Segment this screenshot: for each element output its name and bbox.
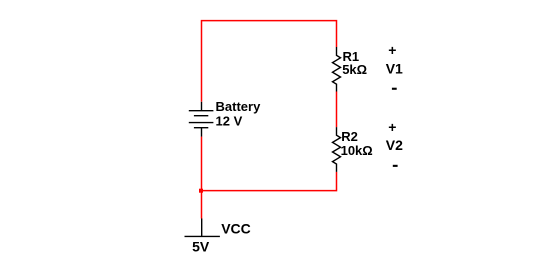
svg-text:12 V: 12 V bbox=[216, 113, 243, 128]
wire battery to VCC bbox=[201, 137, 203, 219]
wire top rail bbox=[202, 21, 337, 102]
wire R1-R2 bbox=[336, 92, 338, 128]
battery V3 bbox=[189, 102, 214, 137]
svg-text:VCC: VCC bbox=[221, 220, 251, 236]
junction bbox=[199, 189, 203, 193]
svg-text:+: + bbox=[388, 42, 396, 58]
svg-text:5kΩ: 5kΩ bbox=[342, 62, 367, 77]
svg-text:+: + bbox=[388, 119, 396, 135]
probe V2 minus bbox=[393, 165, 398, 167]
svg-text:V2: V2 bbox=[386, 137, 403, 153]
svg-text:5V: 5V bbox=[192, 239, 210, 255]
probe V1 minus bbox=[392, 88, 397, 90]
svg-text:V1: V1 bbox=[386, 60, 403, 76]
resistor R2 bbox=[333, 127, 341, 172]
svg-text:Battery: Battery bbox=[216, 99, 262, 114]
resistor R1 bbox=[333, 47, 341, 92]
power VCC symbol bbox=[185, 219, 220, 237]
svg-text:10kΩ: 10kΩ bbox=[341, 143, 373, 158]
wire bottom rail bbox=[202, 172, 337, 191]
svg-text:R2: R2 bbox=[341, 129, 358, 144]
